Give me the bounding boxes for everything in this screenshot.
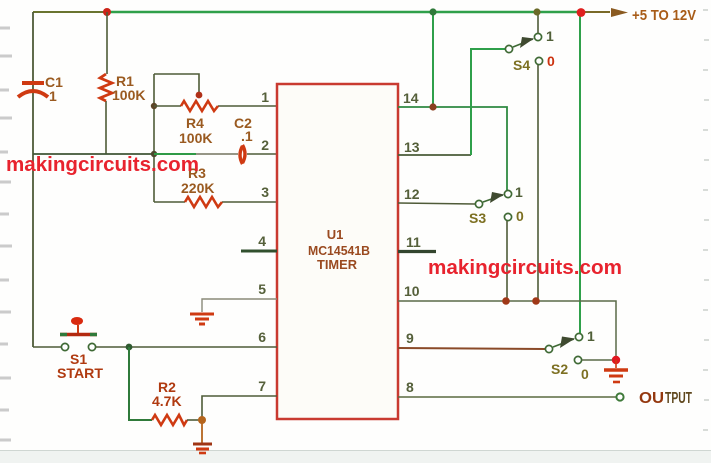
wire pin3 line [154,201,277,203]
junction dot pin14 [429,103,436,110]
wire R2 left drop [129,347,152,420]
resistor R3 [185,197,222,207]
svg-text:4: 4 [258,233,266,249]
wire pin8 output line [398,396,616,398]
svg-text:S4: S4 [513,57,530,73]
svg-text:220K: 220K [181,180,214,196]
switch S3 [475,190,511,220]
wire pin5 stub [202,299,277,312]
pin number labels left [258,89,269,394]
resistor R2 [152,415,187,425]
svg-text:TIMER: TIMER [317,257,358,272]
junction dot pin6-R2 [126,344,133,351]
junction dot pin1 left [151,103,157,109]
wire pin1 line [154,105,277,107]
wire S3-0 drop [506,221,508,301]
svg-text:1: 1 [546,28,554,44]
wire left vertical [32,12,34,347]
svg-text:makingcircuits.com: makingcircuits.com [6,154,199,176]
wire pin10 line [398,301,616,357]
scan edge artifacts right [703,10,709,430]
wire pin4 stub [241,250,277,253]
wire top supply rail [33,11,610,13]
svg-text:0: 0 [581,366,589,382]
scan edge artifacts left [0,28,12,440]
svg-text:13: 13 [404,139,420,155]
resistor R1 [100,74,112,101]
wire pin12 line [398,203,475,204]
wire pin9 line [398,348,545,349]
svg-text:0: 0 [547,53,555,69]
junction dot pin10-S4 [532,297,540,305]
svg-text:7: 7 [258,378,266,394]
svg-text:+5 TO 12V: +5 TO 12V [632,7,696,24]
wire S4-1 to rail [537,12,539,33]
junction dot pin2 left [151,151,157,157]
svg-text:3: 3 [261,184,269,200]
svg-text:1: 1 [515,184,523,200]
ground pin5 [190,314,214,324]
wire rail to pin14 vertical [432,12,434,107]
ground S2 [604,360,628,382]
wire pin14 line [398,107,507,190]
svg-text:12: 12 [404,186,420,202]
label U1 MC14541B TIMER [308,227,370,272]
pin number labels right [403,90,421,395]
wire pin11 stub [398,250,436,253]
svg-text:TPUT: TPUT [665,390,692,407]
svg-text:START: START [57,365,103,381]
supply arrow [611,8,628,17]
svg-text:100K: 100K [179,130,212,146]
svg-text:1: 1 [261,89,269,105]
junction dot rail-S2 red [577,8,586,17]
IC U1 box [277,84,398,419]
junction dot rail-R1 [103,8,111,16]
wire pin6 line [96,346,277,348]
wire pin13 line [398,154,471,156]
svg-text:1: 1 [587,328,595,344]
wire pin2 right segment [154,153,277,155]
junction dot R2-pin7 [198,416,206,424]
capacitor C1 [18,83,48,97]
junction dot rail-S4 [533,8,540,15]
pushbutton S1 [60,317,97,351]
wire R2 right to pin7 [187,396,277,443]
svg-text:14: 14 [403,90,419,106]
junction dot pin10-S3 [502,297,510,305]
switch S2 [545,333,582,363]
wire S1 to left rail [33,346,61,348]
svg-text:1: 1 [49,88,57,104]
junction dot rail-433 [429,8,436,15]
ground R2 [193,444,212,453]
svg-text:5: 5 [258,281,266,297]
junction dot S2-0 ground red [612,356,620,364]
svg-text:11: 11 [406,234,421,250]
wire rail to S2-1 vertical [579,12,581,333]
svg-text:OU: OU [639,390,664,407]
svg-text:100K: 100K [112,87,145,103]
wire R1 leads [106,12,107,154]
wire S2-0 to ground [582,359,612,361]
wire S4-0 drop [537,65,539,301]
svg-text:S3: S3 [469,210,486,226]
wire R4 wiper box [154,74,199,93]
resistor R4 [181,101,218,111]
svg-text:10: 10 [404,283,420,299]
svg-text:.1: .1 [241,128,253,144]
svg-text:U1: U1 [327,227,344,242]
svg-text:S2: S2 [551,361,568,377]
wire network left vertical [153,74,155,202]
output terminal [616,393,623,400]
wire pin2 horizontal left segment [33,153,154,155]
svg-text:4.7K: 4.7K [152,393,182,409]
svg-text:9: 9 [406,330,414,346]
svg-text:0: 0 [516,208,524,224]
svg-text:MC14541B: MC14541B [308,243,370,258]
switch S4 [505,33,542,64]
junction dot R4 wiper [196,92,203,99]
svg-text:8: 8 [406,379,414,395]
capacitor C2 [240,145,245,164]
svg-text:6: 6 [258,329,266,345]
svg-text:makingcircuits.com: makingcircuits.com [428,257,622,279]
scan edge artifacts bottom [0,451,711,463]
svg-text:R4: R4 [186,115,204,131]
svg-text:2: 2 [261,137,269,153]
